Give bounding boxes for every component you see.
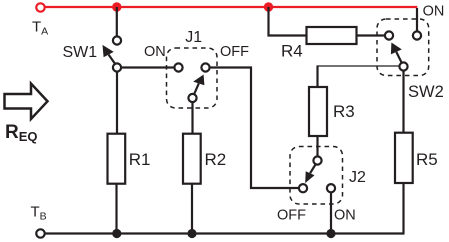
svg-text:OFF: OFF xyxy=(277,208,306,224)
node junction red dot at R4 column xyxy=(264,2,273,11)
wire R3 top up to thin link xyxy=(316,66,318,88)
wire red top bus TA to SW2 ON xyxy=(45,6,417,8)
wire J1 OFF pin right, down, to J2 OFF pin xyxy=(210,68,300,189)
wire SW1 common to J1 left pin xyxy=(121,66,175,68)
svg-text:R4: R4 xyxy=(281,42,303,61)
svg-text:R2: R2 xyxy=(205,150,227,169)
wire J1 bottom pin to R2 top xyxy=(191,102,193,134)
wire R2 bottom to bus xyxy=(191,184,193,234)
resistor R1 xyxy=(108,134,126,184)
wire R3 bottom to J2 top pin xyxy=(316,136,318,157)
svg-text:OFF: OFF xyxy=(220,44,249,60)
resistor R2 xyxy=(183,134,201,184)
terminal TA xyxy=(36,3,44,11)
node junction dot J2 xyxy=(326,229,335,238)
svg-text:J1: J1 xyxy=(185,29,202,46)
wire SW2 ON pin up to red bus xyxy=(416,8,418,32)
node junction dot R2 xyxy=(187,229,196,238)
svg-text:R1: R1 xyxy=(129,150,151,169)
svg-text:SW2: SW2 xyxy=(408,83,444,101)
svg-text:ON: ON xyxy=(144,44,166,60)
svg-text:ON: ON xyxy=(334,208,356,224)
wire SW1 common down to R1 xyxy=(116,72,118,135)
resistor R3 xyxy=(309,87,327,136)
resistor R5 xyxy=(395,133,413,183)
wire SW2 common down to R5 top xyxy=(402,71,404,134)
wire thin link right to SW2 common xyxy=(317,65,400,67)
wire bus drop to SW1 top pin xyxy=(116,7,118,37)
terminal TB xyxy=(36,229,44,237)
wire bottom bus xyxy=(45,232,405,234)
resistor R4 xyxy=(307,27,357,44)
svg-text:R5: R5 xyxy=(416,150,438,169)
equivalent resistance arrow xyxy=(5,84,48,120)
node junction red dot at SW1 column xyxy=(112,2,121,11)
wire R4 to SW2 left pin xyxy=(357,34,386,36)
jumper J1 xyxy=(167,48,218,108)
switch SW2 xyxy=(377,19,429,76)
wire R1 bottom to bus xyxy=(115,184,117,234)
wire J2 ON pin down to bus xyxy=(330,193,332,234)
svg-text:SW1: SW1 xyxy=(63,44,98,61)
svg-text:R3: R3 xyxy=(333,102,355,121)
node junction dot R1 xyxy=(112,229,121,238)
svg-text:J2: J2 xyxy=(349,169,366,186)
switch SW1 xyxy=(103,36,122,71)
wire R5 bottom to bus corner xyxy=(402,183,404,234)
wire red dot down and right to R4 xyxy=(269,7,307,36)
jumper J2 xyxy=(290,147,343,205)
svg-text:ON: ON xyxy=(423,3,445,19)
